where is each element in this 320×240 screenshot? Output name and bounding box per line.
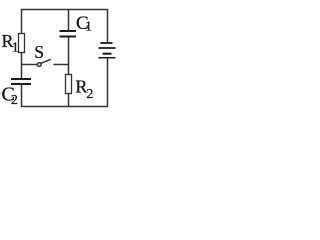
- wire middle branch upper: [68, 9, 70, 31]
- capacitor C1 bottom plate: [60, 36, 77, 38]
- wire left top segment: [21, 9, 23, 34]
- battery cell1 positive plate (long): [99, 47, 116, 49]
- battery cell2 positive plate (long): [99, 57, 116, 59]
- resistor R1: [19, 34, 25, 53]
- wire top rail: [21, 9, 108, 11]
- wire left mid segment: [21, 52, 23, 79]
- switch wire left segment: [21, 64, 37, 66]
- svg-text:1: 1: [12, 41, 19, 56]
- wire left bottom segment: [21, 85, 23, 107]
- wire right bottom segment: [107, 58, 109, 107]
- capacitor C2 bottom plate: [11, 83, 31, 85]
- resistor R2: [66, 75, 72, 94]
- svg-text:2: 2: [86, 87, 93, 102]
- switch S blade: [41, 59, 51, 63]
- wire middle branch lower: [68, 94, 70, 108]
- wire right top segment: [107, 9, 109, 43]
- svg-text:S: S: [34, 42, 44, 62]
- wire middle branch mid: [68, 37, 70, 75]
- wire bottom rail: [21, 106, 108, 108]
- battery cell1 negative plate (short): [100, 42, 112, 44]
- svg-text:2: 2: [11, 93, 18, 108]
- svg-text:1: 1: [85, 20, 92, 35]
- switch wire right segment: [54, 64, 69, 66]
- capacitor C1 top plate: [60, 30, 77, 32]
- switch S pivot: [37, 63, 41, 67]
- capacitor C2 top plate: [11, 78, 31, 80]
- battery cell2 negative plate (short): [103, 53, 112, 55]
